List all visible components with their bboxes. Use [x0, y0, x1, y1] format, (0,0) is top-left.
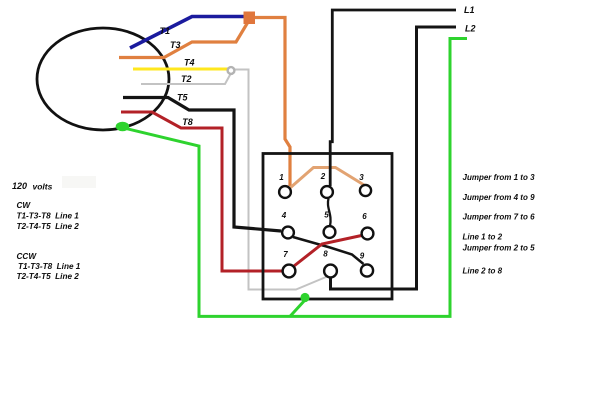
svg-text:T2-T4-T5 Line 2: T2-T4-T5 Line 2 — [17, 222, 80, 231]
svg-text:L1: L1 — [464, 5, 475, 15]
svg-text:7: 7 — [283, 250, 288, 259]
svg-text:T5: T5 — [177, 92, 188, 102]
svg-text:T2-T4-T5 Line 2: T2-T4-T5 Line 2 — [17, 272, 80, 281]
svg-text:Jumper from 7 to 6: Jumper from 7 to 6 — [463, 213, 536, 222]
svg-text:T3: T3 — [170, 40, 181, 50]
svg-text:Line 1 to 2: Line 1 to 2 — [463, 233, 503, 242]
svg-text:Jumper from 4 to 9: Jumper from 4 to 9 — [463, 193, 536, 202]
svg-text:volts: volts — [33, 182, 53, 192]
svg-text:T8: T8 — [182, 117, 193, 127]
svg-text:8: 8 — [323, 250, 328, 259]
svg-text:T1: T1 — [160, 26, 171, 36]
svg-text:L2: L2 — [465, 24, 476, 34]
svg-text:1: 1 — [279, 173, 284, 182]
svg-text:120: 120 — [12, 181, 27, 191]
svg-text:T1-T3-T8 Line 1: T1-T3-T8 Line 1 — [17, 212, 80, 221]
svg-text:Jumper from 2 to 5: Jumper from 2 to 5 — [463, 244, 536, 253]
svg-text:3: 3 — [359, 173, 364, 182]
svg-text:9: 9 — [360, 252, 365, 261]
svg-text:CCW: CCW — [17, 252, 38, 261]
svg-text:T4: T4 — [184, 57, 195, 67]
svg-text:T2: T2 — [181, 74, 192, 84]
svg-text:T1-T3-T8 Line 1: T1-T3-T8 Line 1 — [18, 262, 81, 271]
svg-text:Line 2 to 8: Line 2 to 8 — [463, 267, 503, 276]
svg-text:5: 5 — [324, 211, 329, 220]
svg-text:Jumper from 1 to 3: Jumper from 1 to 3 — [463, 173, 536, 182]
svg-text:CW: CW — [17, 201, 32, 210]
svg-text:2: 2 — [320, 172, 326, 181]
svg-text:4: 4 — [281, 211, 287, 220]
svg-text:6: 6 — [362, 212, 367, 221]
